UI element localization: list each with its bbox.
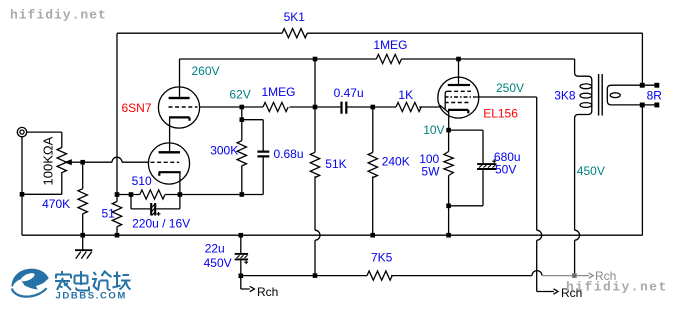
wire SRPP link upper cathode to lower plate [169, 117, 171, 151]
resistor R 7K5 [367, 271, 392, 280]
speaker terminal squares [640, 83, 660, 108]
resistor R 470K [78, 189, 87, 214]
resistor R 240K [368, 152, 377, 177]
svg-text:250V: 250V [496, 81, 524, 95]
tube EL156 plate [448, 84, 470, 86]
wire 470K branch [82, 162, 84, 235]
gray node square [572, 273, 577, 278]
svg-text:10V: 10V [423, 123, 444, 137]
resistor R 300K [237, 141, 246, 166]
wire 10V node to 680u [449, 130, 483, 163]
wire top feedback line [117, 32, 643, 34]
svg-text:22u: 22u [205, 242, 225, 256]
svg-text:62V: 62V [229, 88, 250, 102]
tube 6SN7 lower grid [151, 161, 180, 163]
wire 240K branch [372, 107, 374, 235]
svg-text:240K: 240K [382, 155, 410, 169]
transformer secondary terminal links [644, 85, 654, 105]
tube 6SN7 upper plate [169, 97, 190, 99]
arrow Rch left [250, 286, 255, 291]
capacitor C 0.68u [257, 152, 269, 157]
wire EL156 cathode lead [448, 111, 450, 130]
svg-text:3K8: 3K8 [554, 89, 576, 103]
tube EL156 g1 bracket [445, 91, 447, 109]
tube 6SN7 lower plate [159, 151, 180, 153]
logo JDBBS chinese text dian [75, 271, 90, 291]
svg-text:510: 510 [132, 174, 152, 188]
capacitor C 220u/16V electrolytic [151, 203, 160, 216]
logo JDBBS chinese text tan [113, 272, 131, 290]
wire 0.68u branch [242, 120, 263, 195]
svg-text:0.47u: 0.47u [334, 86, 364, 100]
capacitor C 680u/50V electrolytic [449, 159, 497, 206]
capacitor C 0.47u [342, 102, 347, 114]
wire hop primary vertical over rail [575, 230, 580, 240]
capacitor C 22u/450V electrolytic [235, 235, 248, 276]
svg-text:1K: 1K [398, 88, 413, 102]
svg-text:51K: 51K [325, 157, 346, 171]
resistor R 51K [310, 152, 319, 177]
svg-text:51: 51 [102, 207, 116, 221]
tube EL156 cathode [448, 110, 468, 114]
svg-text:100KΩA: 100KΩA [41, 136, 56, 185]
wire lower grid line [83, 161, 149, 163]
wire secondary top to feedback [641, 33, 643, 85]
wire Rch left drop [241, 276, 250, 289]
svg-text:220u / 16V: 220u / 16V [132, 217, 190, 231]
ground symbol [75, 235, 92, 258]
svg-text:7K5: 7K5 [371, 251, 393, 265]
wire pot wiper [72, 161, 83, 163]
wire secondary bottom to rail [641, 105, 643, 235]
wire cathode line y194.5 [117, 194, 263, 196]
wire hop g2 vertical over rail [537, 230, 542, 240]
svg-text:300K: 300K [210, 144, 238, 158]
svg-text:1MEG: 1MEG [262, 85, 296, 99]
resistor R 1K [396, 102, 421, 111]
svg-text:260V: 260V [192, 64, 220, 78]
svg-text:Rch: Rch [257, 285, 278, 299]
tube EL156 g1 [448, 90, 472, 92]
wire ground rail [22, 234, 642, 236]
wire plate lead upper 6SN7 [179, 59, 181, 97]
svg-text:470K: 470K [42, 197, 70, 211]
svg-text:5W: 5W [421, 164, 440, 178]
tube 6SN7 upper triode envelope [158, 87, 199, 128]
svg-text:hifidiy.net: hifidiy.net [566, 280, 668, 295]
resistor R 100 5W [444, 130, 453, 235]
svg-text:0.68u: 0.68u [274, 147, 304, 161]
tube 6SN7 lower triode envelope [148, 143, 189, 184]
svg-text:6SN7: 6SN7 [122, 101, 152, 115]
wire screen grid g2 line [474, 97, 554, 292]
transformer primary coil loops [580, 84, 592, 108]
logo JDBBS icon [12, 269, 49, 297]
wire 300K branch [241, 107, 243, 195]
wire lower cathode lead [179, 172, 181, 194]
transformer primary wiring [575, 59, 592, 273]
tube EL156 g2 [445, 96, 475, 98]
resistor R 51 [112, 202, 121, 227]
wire hop output line over 537 vertical [532, 271, 542, 276]
logo JDBBS chinese text jia [55, 271, 71, 290]
wire hop 51K line over rail [315, 230, 320, 240]
tube 6SN7 lower cathode [159, 172, 181, 176]
resistor R 5K1 [282, 29, 307, 38]
svg-text:5K1: 5K1 [284, 10, 306, 24]
wire B+ 260V line [180, 58, 575, 60]
wire 1MEG-branch vertical [314, 59, 316, 276]
resistor R 510 [140, 190, 165, 199]
tube 6SN7 upper grid [169, 106, 198, 108]
svg-text:1MEG: 1MEG [373, 38, 407, 52]
pot wiper arrow [64, 159, 72, 165]
svg-text:450V: 450V [204, 256, 232, 270]
wire hop grid line over feedback [112, 157, 122, 162]
tube EL156 g3 [445, 102, 471, 104]
wire EL156 grid entry diagonal [440, 105, 449, 112]
transformer core [599, 74, 603, 116]
svg-text:50V: 50V [495, 163, 516, 177]
svg-text:hifidiy.net: hifidiy.net [10, 8, 107, 23]
tube 6SN7 upper cathode [169, 117, 190, 120]
resistor R 1MEG grid [263, 102, 288, 111]
gray output branch [542, 273, 593, 278]
resistor R 1MEG top [376, 54, 401, 63]
wire output line y275.6 [241, 275, 532, 277]
svg-text:EL156: EL156 [483, 107, 518, 121]
potentiometer R 100K zigzag [57, 148, 66, 173]
logo JDBBS chinese text lun [92, 271, 112, 291]
wire input to pot [22, 132, 62, 235]
wire 220u loop [131, 195, 180, 209]
wire main signal line y107 [200, 106, 441, 108]
svg-text:JDBBS.COM: JDBBS.COM [56, 291, 127, 302]
arrow Rch right [554, 289, 559, 294]
svg-text:8R: 8R [647, 89, 663, 103]
input connector [17, 127, 26, 136]
svg-text:450V: 450V [577, 164, 605, 178]
wire EL156 plate lead [458, 59, 460, 84]
wire feedback left vertical [116, 33, 118, 235]
tube EL156 envelope [438, 77, 479, 118]
transformer secondary loop [607, 85, 644, 105]
